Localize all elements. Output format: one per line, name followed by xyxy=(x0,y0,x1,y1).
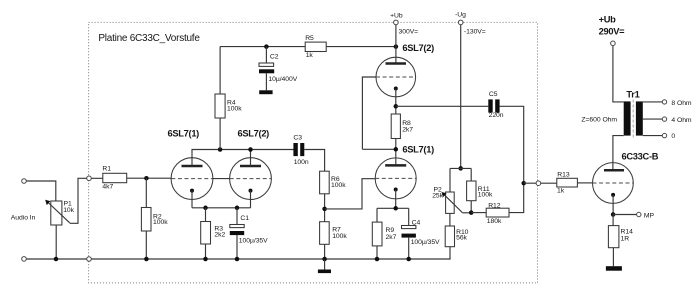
wire P1 wiper riser to R1 row xyxy=(70,178,103,223)
wire cathode rail stage1 xyxy=(192,207,251,209)
transformer Tr1 xyxy=(581,89,642,137)
svg-text:2k2: 2k2 xyxy=(214,232,225,239)
junction +Ub column xyxy=(394,44,399,49)
svg-text:0: 0 xyxy=(671,133,675,140)
svg-text:100k: 100k xyxy=(331,182,346,189)
resistor R7 xyxy=(320,222,348,259)
junction P1 ground xyxy=(54,257,59,262)
junction plate rail R4 xyxy=(218,147,223,152)
wire V2a cathode to R8 xyxy=(395,89,397,115)
capacitor C4 xyxy=(402,208,441,259)
junction -Ug bias rail xyxy=(458,166,463,171)
svg-text:C2: C2 xyxy=(270,53,279,60)
wire SRPP output to C5 xyxy=(396,105,489,107)
board outline dashed box Platine xyxy=(89,22,538,283)
svg-text:6C33C-B: 6C33C-B xyxy=(622,152,659,162)
junction feedback node xyxy=(469,210,474,215)
potentiometer P2 xyxy=(432,168,471,213)
wire V1a cathode stub xyxy=(191,191,193,208)
wire V1b cathode stub xyxy=(250,191,252,208)
wire primary bottom to plate xyxy=(613,136,624,171)
svg-text:56k: 56k xyxy=(456,235,467,242)
capacitor C3 xyxy=(293,135,308,167)
junction C2 tap xyxy=(264,44,269,49)
junction cathode stage2 xyxy=(393,206,398,211)
triode V3 6C33C-B xyxy=(593,163,634,204)
svg-text:10k: 10k xyxy=(63,207,74,214)
junction R8 bottom xyxy=(394,147,399,152)
wire V1b plate stub xyxy=(250,150,252,167)
terminal 8 Ohm xyxy=(662,100,666,104)
wire input top to P1 xyxy=(26,181,56,201)
capacitor C1 xyxy=(230,208,268,259)
svg-text:6SL7(2): 6SL7(2) xyxy=(402,43,434,53)
resistor R6 xyxy=(320,171,347,222)
wire top rail +Ub feed xyxy=(220,46,396,48)
svg-text:4 Ohm: 4 Ohm xyxy=(671,117,692,124)
svg-text:R12: R12 xyxy=(488,203,501,210)
triode V1a 6SL7(1) xyxy=(171,158,213,200)
wire secondary tap 0 xyxy=(643,135,663,137)
ground symbol C2 xyxy=(259,90,272,94)
svg-text:180k: 180k xyxy=(487,218,502,225)
svg-text:6SL7(1): 6SL7(1) xyxy=(402,144,434,154)
wire output node to R13 xyxy=(524,182,557,184)
svg-text:290V=: 290V= xyxy=(599,27,626,37)
svg-text:Audio In: Audio In xyxy=(11,215,36,222)
wire secondary tap 4 Ohm xyxy=(643,118,663,120)
svg-text:R13: R13 xyxy=(557,172,570,179)
svg-text:C1: C1 xyxy=(240,215,249,222)
resistor R3 xyxy=(201,208,226,259)
svg-text:1R: 1R xyxy=(621,236,630,243)
svg-text:2k7: 2k7 xyxy=(402,127,413,134)
supply +Ub 290V labels xyxy=(599,14,626,36)
junction R3 ground xyxy=(203,257,208,262)
triode V1b 6SL7(2) xyxy=(230,158,272,200)
wire V2b cathode stub xyxy=(395,190,397,209)
terminal board edge signal xyxy=(87,176,92,181)
junction output node xyxy=(521,181,526,186)
ground symbol R14 xyxy=(606,266,622,271)
terminal input bottom xyxy=(22,257,27,262)
resistor R12 xyxy=(471,203,509,226)
resistor R11 xyxy=(467,168,493,212)
potentiometer P1 xyxy=(45,200,75,225)
svg-text:R1: R1 xyxy=(102,166,111,173)
junction cathode R3 xyxy=(203,206,208,211)
resistor R1 xyxy=(102,166,126,191)
node grid1 junction xyxy=(144,176,149,181)
svg-text:Z=600 Ohm: Z=600 Ohm xyxy=(581,117,617,124)
wire secondary tap 8 Ohm xyxy=(643,101,663,103)
junction SRPP output xyxy=(394,104,399,109)
resistor R14 xyxy=(608,215,633,267)
triode V2b 6SL7(1) xyxy=(375,158,416,199)
junction cathode MP xyxy=(611,212,616,217)
wire interstage to V2b grid xyxy=(325,179,376,209)
svg-text:6SL7(1): 6SL7(1) xyxy=(168,128,200,138)
terminal board edge output xyxy=(536,181,541,186)
terminal 4 Ohm xyxy=(662,117,666,121)
svg-text:+Ub: +Ub xyxy=(390,13,403,20)
capacitor C2 xyxy=(259,47,298,91)
junction R6 R7 xyxy=(322,207,327,212)
wire +Ub to transformer primary xyxy=(613,46,624,102)
ground symbol main bus xyxy=(324,259,326,270)
junction C4 ground xyxy=(406,257,411,262)
wire MP stub xyxy=(613,214,637,216)
triode V2a 6SL7(2) xyxy=(376,57,416,97)
resistor R5 xyxy=(305,35,326,59)
svg-text:C5: C5 xyxy=(489,91,498,98)
svg-text:6SL7(2): 6SL7(2) xyxy=(238,128,270,138)
terminal 0 Ohm xyxy=(662,133,666,137)
svg-text:100µ/35V: 100µ/35V xyxy=(411,239,440,246)
junction R2 ground xyxy=(144,257,149,262)
ground bus wire xyxy=(26,258,450,260)
svg-text:1k: 1k xyxy=(557,187,565,194)
terminal +Ub 300V xyxy=(394,20,399,25)
junction plate rail V1b xyxy=(248,147,253,152)
resistor R13 xyxy=(557,172,593,195)
junction R7 ground bus xyxy=(322,257,327,262)
resistor R8 xyxy=(391,114,413,165)
terminal MP xyxy=(637,212,641,216)
svg-text:100k: 100k xyxy=(332,233,347,240)
svg-text:Tr1: Tr1 xyxy=(626,89,639,99)
supply +Ub 300V terminal xyxy=(390,13,418,64)
svg-text:C4: C4 xyxy=(412,220,421,227)
resistor R10 xyxy=(445,213,468,259)
svg-text:+Ub: +Ub xyxy=(599,14,617,24)
svg-text:300V=: 300V= xyxy=(399,29,419,36)
svg-text:2k7: 2k7 xyxy=(386,234,397,241)
terminal input top xyxy=(22,179,27,184)
resistor R2 xyxy=(141,178,168,259)
svg-text:25k: 25k xyxy=(432,193,443,200)
svg-text:100n: 100n xyxy=(294,159,309,166)
svg-text:100k: 100k xyxy=(478,192,493,199)
svg-text:220n: 220n xyxy=(489,112,504,119)
svg-text:100k: 100k xyxy=(153,219,168,226)
wire grid loop to R8 bottom xyxy=(362,148,395,150)
supply -Ug terminal xyxy=(455,12,486,169)
wire C3 to R6 xyxy=(304,150,324,172)
resistor R9 xyxy=(372,208,396,259)
junction R9 ground xyxy=(375,257,380,262)
wire bias top link xyxy=(450,167,471,169)
svg-text:-130V=: -130V= xyxy=(464,28,486,35)
svg-text:4k7: 4k7 xyxy=(102,184,113,191)
wire grid link between triodes xyxy=(213,178,230,180)
svg-text:1k: 1k xyxy=(306,52,314,59)
svg-text:R5: R5 xyxy=(305,35,314,42)
wire V1a plate to plate rail xyxy=(192,150,294,167)
svg-text:MP: MP xyxy=(644,213,655,220)
svg-text:-Ug: -Ug xyxy=(455,12,466,19)
junction cathode C1 xyxy=(235,206,240,211)
svg-text:100k: 100k xyxy=(227,105,242,112)
svg-text:Platine 6C33C_Vorstufe: Platine 6C33C_Vorstufe xyxy=(98,33,200,44)
svg-text:10µ/400V: 10µ/400V xyxy=(268,76,297,83)
svg-text:100µ/35V: 100µ/35V xyxy=(239,238,268,245)
capacitor C5 xyxy=(488,91,503,119)
wire V2a grid loop xyxy=(362,77,376,149)
wire P1 bottom to ground bus xyxy=(55,225,57,259)
terminal +Ub 290V xyxy=(611,41,616,46)
wire R1 to grid node xyxy=(127,177,172,179)
wire V3 cathode down xyxy=(612,195,614,215)
svg-text:8 Ohm: 8 Ohm xyxy=(671,100,692,107)
wire cathode rail stage2 xyxy=(377,207,409,209)
svg-text:C3: C3 xyxy=(293,135,302,142)
wire C5 to output node riser xyxy=(500,106,524,212)
resistor R4 xyxy=(215,47,242,150)
junction C1 ground xyxy=(235,257,240,262)
terminal -Ug xyxy=(458,20,463,25)
svg-text:R14: R14 xyxy=(621,229,634,236)
terminal board edge ground xyxy=(87,257,92,262)
